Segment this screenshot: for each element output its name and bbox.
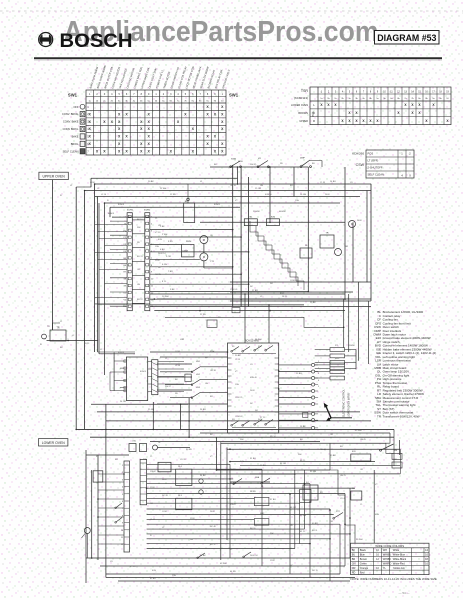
svg-text:36 RD: 36 RD [250, 491, 256, 493]
svg-text:L1 49: L1 49 [150, 519, 156, 521]
svg-text:WH: WH [298, 454, 302, 456]
wire staircase lower right [330, 443, 355, 543]
wire bottom bus 3 [106, 573, 340, 575]
svg-text:12A 47: 12A 47 [150, 470, 157, 473]
wire nested bus 4 [105, 202, 341, 204]
relay RL2 [300, 248, 312, 258]
svg-text:BU 31: BU 31 [137, 256, 143, 258]
relay TR coil [320, 235, 334, 248]
svg-text:27 YL: 27 YL [260, 417, 266, 419]
switch row lower right bus [233, 478, 270, 485]
svg-text:SW1: SW1 [68, 92, 78, 97]
wire left riser B [75, 187, 77, 429]
svg-text:14 BU: 14 BU [330, 181, 336, 183]
svg-text:47 BR: 47 BR [260, 465, 266, 467]
svg-text:9 BK: 9 BK [170, 289, 175, 291]
table CSW oven selector chart [352, 150, 414, 178]
svg-text:PH: PH [218, 317, 221, 319]
svg-text:2 WH: 2 WH [162, 234, 168, 236]
micro switches right [392, 453, 402, 459]
wire mid bus 5 [200, 432, 390, 434]
wire left riser H [104, 203, 106, 375]
svg-text:RD 24: RD 24 [270, 436, 277, 438]
motor CTF convection fan [200, 253, 208, 261]
svg-text:28 BK: 28 BK [300, 426, 306, 428]
heater box lower right [351, 454, 371, 461]
svg-text:29 WH: 29 WH [355, 430, 362, 432]
wire left riser G [98, 203, 100, 354]
svg-text:35 WH: 35 WH [230, 483, 237, 485]
wire lower bus of upper section A [230, 281, 371, 283]
svg-text:6CH/5: 6CH/5 [214, 204, 221, 206]
wire left riser F [97, 197, 99, 353]
svg-text:17 BR: 17 BR [252, 290, 258, 292]
wire mid bus 1 [91, 403, 188, 405]
wire element bus right drop [344, 167, 346, 299]
svg-text:BR 32: BR 32 [210, 544, 216, 546]
svg-text:4400W: 4400W [279, 211, 286, 213]
connector 6CH/1 upper control board [127, 213, 132, 311]
wire nested bus 5 [110, 206, 240, 208]
svg-text:5: 5 [122, 494, 123, 496]
svg-text:White: White [393, 549, 400, 552]
svg-text:5 OR: 5 OR [166, 256, 171, 258]
svg-text:DWM: DWM [183, 251, 188, 253]
svg-text:Blue: Blue [360, 553, 366, 556]
svg-text:OR 38: OR 38 [210, 370, 217, 372]
wire nested bus 1 [95, 183, 371, 185]
wire riser into module [113, 353, 115, 391]
wire transformer top lead [53, 323, 61, 330]
svg-text:32 OR: 32 OR [280, 463, 287, 465]
svg-text:6CH: 6CH [375, 514, 380, 516]
wire mid bus 3 [106, 420, 371, 422]
wire right descent C [399, 449, 401, 474]
svg-text:38 OR: 38 OR [290, 507, 297, 509]
svg-text:120V: 120V [150, 487, 155, 489]
svg-text:12: 12 [121, 544, 123, 546]
wire mid riser D [216, 437, 218, 470]
wire right riser upper C [248, 177, 250, 307]
wire lower mid buses [230, 461, 375, 463]
component box ladder [185, 374, 191, 381]
svg-text:OR 18: OR 18 [230, 185, 237, 187]
svg-text:CONV BR/CL: CONV BR/CL [63, 127, 79, 131]
svg-text:7: 7 [122, 508, 123, 510]
svg-text:COM: COM [175, 351, 180, 353]
svg-text:10 WH: 10 WH [162, 296, 169, 298]
vertical risers lower center [294, 470, 296, 549]
svg-text:240V: 240V [210, 511, 215, 513]
svg-text:SW1: SW1 [229, 92, 239, 97]
resistor bank lower-oven elements [330, 348, 345, 352]
wire fanout lower [147, 463, 230, 465]
arrow pointer lower [329, 418, 332, 420]
connector 6CH/2 upper control board [145, 213, 150, 311]
svg-text:TSR: TSR [301, 89, 309, 93]
svg-text:L2 36: L2 36 [175, 365, 181, 367]
wire staircase upper right 2 [256, 226, 304, 290]
svg-text:6CH/260: 6CH/260 [352, 152, 364, 156]
svg-text:WH: WH [270, 533, 274, 535]
svg-text:TR: TR [326, 233, 329, 235]
wire upper-right riser 2 [366, 191, 368, 283]
svg-text:4: 4 [122, 487, 123, 489]
svg-text:WH 17: WH 17 [165, 386, 172, 388]
svg-text:BK 10: BK 10 [137, 219, 143, 221]
svg-text:RD 44: RD 44 [320, 449, 327, 451]
svg-text:37 BU: 37 BU [270, 499, 276, 501]
fuse block F1 [93, 471, 103, 482]
wire element bus [200, 221, 345, 223]
switch DMP interlock [300, 160, 311, 168]
wire nested bus 3 [95, 196, 360, 198]
svg-text:NOTE: WIRE NUMBERS 10-11-12-20: NOTE: WIRE NUMBERS 10-11-12-20 INCLUDES … [351, 577, 437, 581]
svg-text:BOSCH: BOSCH [60, 30, 133, 52]
wire resistor bank feed [355, 350, 357, 370]
svg-text:WIRE CODE COLORS: WIRE CODE COLORS [375, 544, 404, 548]
relay RL1 [184, 203, 195, 223]
lamp bottom-left [84, 528, 90, 534]
svg-text:UPPER: UPPER [299, 120, 308, 123]
svg-text:TSR: TSR [344, 246, 349, 248]
svg-text:7 BR: 7 BR [168, 271, 173, 273]
motor CF cooling fan [200, 236, 208, 244]
svg-text:15 OR: 15 OR [255, 188, 262, 190]
wire stub top switches [310, 161, 322, 168]
svg-text:BROWN: BROWN [298, 112, 308, 115]
svg-text:Red: Red [360, 571, 365, 574]
switch SSW door switch [230, 161, 242, 168]
switch blade on bus B [243, 552, 251, 558]
svg-text:DIAGRAM #53: DIAGRAM #53 [377, 33, 436, 43]
svg-text:240V: 240V [250, 390, 255, 392]
wire lower-left boundary 3 [97, 455, 99, 560]
relay box lower mid [176, 469, 192, 485]
board top switch cluster [231, 346, 276, 354]
svg-text:6CH/4: 6CH/4 [118, 204, 125, 206]
svg-text:BR 12: BR 12 [137, 299, 143, 301]
svg-text:M: M [203, 239, 205, 242]
svg-text:SBA: SBA [255, 476, 260, 479]
svg-text:3: 3 [122, 479, 123, 481]
wire mid riser C [188, 398, 190, 437]
svg-text:40 BR: 40 BR [312, 523, 318, 525]
wire mid bus 4 [76, 428, 394, 430]
svg-text:2300W: 2300W [348, 345, 355, 347]
svg-text:9: 9 [122, 523, 123, 525]
svg-text:12A 27: 12A 27 [230, 503, 237, 506]
wire bottom risers [229, 464, 231, 558]
wire nested bus 6 [112, 216, 233, 218]
svg-text:M: M [203, 256, 205, 259]
wire lamp feed [86, 454, 129, 456]
svg-text:Transformer 60W/12V, 40W: Transformer 60W/12V, 40W [383, 414, 420, 418]
resistor E20 bake element [266, 219, 279, 226]
svg-text:240V 34: 240V 34 [250, 555, 258, 557]
svg-text:OFF: OFF [73, 105, 79, 109]
svg-text:BU: BU [352, 553, 356, 556]
svg-text:SELF CLEAN: SELF CLEAN [63, 149, 79, 153]
svg-text:SM: SM [394, 450, 397, 452]
svg-text:49 BK: 49 BK [330, 455, 336, 457]
inline fuse box small [303, 413, 308, 418]
wire ladder rungs [150, 351, 228, 353]
svg-text:Orange: Orange [360, 567, 369, 570]
svg-text:CONV. BROIL: CONV. BROIL [62, 112, 79, 116]
svg-text:6: 6 [122, 501, 123, 503]
legend component abbreviation list [374, 310, 437, 418]
svg-text:50 WH: 50 WH [356, 539, 363, 541]
svg-text:30 RD: 30 RD [186, 449, 192, 451]
relay module pins [120, 360, 126, 362]
svg-text:19 BK: 19 BK [310, 302, 316, 304]
switch blade top right [380, 444, 394, 451]
svg-text:CSW: CSW [356, 163, 365, 167]
svg-text:DMP: DMP [300, 158, 305, 160]
svg-text:L2 16: L2 16 [101, 194, 107, 196]
svg-text:4 BU: 4 BU [160, 249, 165, 251]
svg-text:GN 25: GN 25 [340, 475, 347, 477]
board inner ticks [228, 357, 279, 359]
component cluster center [300, 489, 311, 502]
wire bus to lower right B [227, 448, 400, 450]
svg-text:120V 41: 120V 41 [230, 289, 238, 291]
svg-text:6CH/9: 6CH/9 [140, 371, 147, 373]
wire inter-strip links [132, 219, 145, 221]
aux relay box [351, 491, 362, 500]
connector ribbon hatched [152, 360, 158, 395]
wire lower-left boundary 4 [105, 404, 107, 577]
svg-text:GN: GN [352, 562, 356, 565]
svg-text:SELF CLEAN: SELF CLEAN [368, 173, 384, 177]
wire left riser E [94, 184, 96, 352]
wire lower bus of upper section B [230, 291, 353, 293]
wire bus to lower right A [221, 442, 386, 444]
svg-text:Brown: Brown [360, 558, 368, 561]
svg-text:HY: HY [258, 158, 262, 160]
svg-text:R: R [313, 119, 315, 123]
svg-text:48 YL: 48 YL [300, 460, 306, 462]
svg-text:WH: WH [383, 549, 387, 552]
wire right riser upper A [232, 165, 234, 307]
svg-text:CONV. BAKE: CONV. BAKE [63, 120, 79, 124]
svg-text:120V: 120V [155, 260, 160, 262]
svg-text:TSH: TSH [143, 459, 148, 461]
wire fan from ribbon to ladder [158, 361, 184, 363]
svg-text:25 GN: 25 GN [148, 409, 155, 411]
wire transformer output [47, 340, 98, 342]
svg-text:3 RD: 3 RD [168, 241, 173, 243]
wire motor links [203, 244, 205, 253]
svg-text:YL 19: YL 19 [235, 359, 241, 361]
svg-text:COM: COM [90, 182, 95, 184]
svg-text:240V: 240V [162, 479, 167, 481]
label LOWER OVEN [39, 439, 68, 446]
svg-text:White-Blue: White-Blue [393, 553, 406, 556]
indicator lamp pair [129, 444, 136, 452]
svg-text:WH/BK: WH/BK [383, 558, 392, 561]
svg-text:X: X [409, 174, 411, 178]
svg-text:GY 46: GY 46 [340, 498, 347, 500]
motor LM lock motor [349, 221, 356, 228]
svg-text:COM 42: COM 42 [235, 416, 243, 418]
wire arrow junction lead [331, 417, 352, 419]
wire stubs into left of connector [110, 220, 127, 222]
svg-text:LOWER OVEN (MRB): LOWER OVEN (MRB) [347, 393, 350, 417]
switch blade right [333, 513, 343, 520]
wire mid bus 7 [150, 441, 320, 443]
svg-text:20 BK: 20 BK [235, 355, 241, 357]
wire lower bus of upper section C [230, 300, 371, 302]
svg-text:WH 37: WH 37 [250, 164, 257, 166]
svg-text:31 BU: 31 BU [250, 458, 256, 460]
svg-text:VT 33: VT 33 [155, 232, 161, 234]
svg-text:WH/RD: WH/RD [383, 562, 392, 565]
wire staircase upper right [250, 221, 298, 286]
svg-text:White-Black: White-Black [393, 558, 407, 561]
svg-text:120V: 120V [270, 560, 275, 562]
svg-text:BR: BR [352, 558, 356, 561]
control board MRB outline [228, 343, 279, 433]
wire lower-left boundary [85, 450, 87, 583]
inline component on divider [232, 308, 240, 313]
wire switch drop B2 [293, 167, 295, 197]
svg-text:NO: NO [270, 283, 273, 285]
wire right descent A [394, 429, 400, 465]
terminal circles column [312, 363, 315, 366]
svg-text:NC 48: NC 48 [210, 526, 217, 528]
svg-text:BVD: BVD [335, 358, 340, 360]
svg-text:22 RD: 22 RD [200, 314, 206, 316]
svg-text:DWM: DWM [186, 241, 191, 243]
wire right descent B [386, 433, 394, 453]
wire band bus 294 [150, 293, 345, 295]
transformer TR1 [50, 330, 66, 341]
svg-text:WH/BU: WH/BU [383, 553, 392, 556]
svg-text:PSH: PSH [210, 351, 215, 353]
ladder boxes right [254, 498, 269, 506]
wire labels [40, 161, 397, 580]
svg-text:BAKE: BAKE [72, 135, 79, 139]
wire bottom bus 5 [118, 580, 350, 582]
resistor BL broil element [244, 219, 257, 226]
wire band riser mid [244, 294, 246, 343]
node junction transformer [67, 340, 69, 342]
wire corner riser A [220, 442, 222, 560]
svg-text:45 BU: 45 BU [150, 578, 156, 580]
wire bottom bus 2 [100, 565, 345, 567]
label UPPER OVEN [39, 172, 68, 179]
svg-text:NO: NO [150, 503, 153, 505]
svg-text:46 GN: 46 GN [230, 469, 237, 471]
terminal lug left [42, 334, 47, 339]
svg-text:6CH 20: 6CH 20 [265, 194, 273, 196]
svg-text:LOWER OVEN: LOWER OVEN [42, 441, 66, 445]
switch blade lower ladder [115, 503, 122, 523]
svg-text:COM: COM [162, 511, 167, 513]
wire switch drop B [269, 167, 271, 222]
svg-text:SSW: SSW [238, 161, 243, 163]
wire left riser D [90, 178, 92, 187]
svg-text:LSR: LSR [180, 339, 185, 341]
table SW1 selector-switch contact chart [62, 64, 239, 155]
wire band bus 299 [157, 298, 371, 300]
svg-text:RD: RD [352, 571, 356, 574]
wire lower-left boundary 2 [91, 470, 93, 558]
wire lower right link [399, 440, 401, 455]
svg-text:NO 35: NO 35 [155, 274, 162, 276]
decorative: skip-label-not-needed [0, 10, 463, 12]
wire mid bus 2 [97, 411, 360, 413]
wire bottom bus 4 [106, 577, 355, 579]
component thermal switch TSH [158, 462, 171, 472]
svg-text:TR: TR [47, 326, 50, 328]
wire mid riser B [180, 404, 182, 429]
svg-text:NO 15: NO 15 [312, 570, 319, 572]
label DIAGRAM #53 box [375, 31, 440, 45]
wire mid bus 6 [90, 436, 394, 438]
svg-text:BU 11: BU 11 [312, 530, 318, 532]
svg-text:6CH/2: 6CH/2 [144, 210, 151, 212]
wire left riser I [109, 207, 111, 217]
thermostat TSR disc [335, 249, 342, 256]
wire switch drop C [307, 167, 309, 292]
ladder wiring left of strips [98, 473, 124, 475]
wire rungs from left risers [95, 224, 128, 226]
svg-text:White-Red: White-Red [393, 562, 405, 565]
svg-text:43 WH: 43 WH [220, 563, 227, 565]
svg-text:Black: Black [360, 549, 367, 552]
connector 6CH/5 lower board A [124, 461, 130, 552]
wire band riser mid 2 [268, 305, 270, 343]
wire mid riser A [152, 402, 154, 429]
svg-text:POS: POS [368, 152, 374, 156]
svg-text:12 RD: 12 RD [170, 194, 176, 196]
node junction top bus [269, 166, 271, 168]
svg-text:DLM: DLM [357, 220, 362, 222]
svg-text:6CH 40: 6CH 40 [250, 377, 258, 379]
relay box lower mid 2 [176, 498, 192, 509]
svg-text:2-SHUTOFF: 2-SHUTOFF [368, 166, 383, 170]
svg-text:M: M [351, 223, 353, 226]
svg-text:6CH/1: 6CH/1 [127, 210, 134, 212]
svg-text:11 WH: 11 WH [160, 188, 167, 190]
svg-text:33 GN: 33 GN [310, 471, 317, 473]
wire right riser upper B [240, 168, 242, 307]
svg-text:YL 39: YL 39 [320, 182, 326, 184]
svg-text:6CH: 6CH [240, 461, 245, 463]
arrow pointer upper [326, 407, 331, 418]
svg-text:VT 13: VT 13 [130, 566, 136, 568]
svg-text:10: 10 [121, 530, 123, 532]
svg-text:6 GN: 6 GN [162, 264, 167, 266]
svg-text:6CH: 6CH [152, 570, 157, 572]
lamp OL circle [153, 445, 158, 450]
svg-text:26 BR: 26 BR [200, 409, 206, 411]
svg-text:BK: BK [352, 549, 356, 552]
wire upper-right riser [352, 222, 354, 282]
svg-text:BROIL: BROIL [71, 142, 79, 146]
svg-text:18 YL: 18 YL [282, 296, 288, 298]
contactor K4 [303, 485, 318, 500]
table TSR thermostat contact chart [291, 87, 451, 125]
svg-text:GY 26: GY 26 [180, 459, 187, 461]
board bottom switch cluster [231, 420, 276, 428]
wire fanout upper pins [150, 229, 233, 231]
wire terminal to resistor links [315, 364, 330, 366]
wire band risers right [343, 299, 345, 348]
